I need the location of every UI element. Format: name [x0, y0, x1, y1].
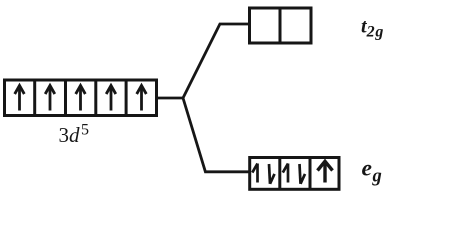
electron up-arrow 5	[137, 86, 147, 111]
wire branch up to t2g level	[183, 24, 250, 98]
eg box3 bold up arrow	[318, 161, 333, 182]
eg box1 paired electrons: half up arrow	[252, 164, 257, 183]
electron up-arrow 1	[15, 86, 25, 111]
3d orbital box row (5 boxes)	[5, 80, 157, 116]
electron up-arrow 3	[76, 86, 86, 111]
electron up-arrow 2	[45, 86, 55, 111]
eg orbital box triple	[250, 158, 339, 190]
wire branch down to eg level	[183, 98, 250, 172]
electron up-arrow 4	[106, 86, 116, 111]
eg box1 half down arrow	[269, 164, 275, 184]
wire from 3d row to junction	[157, 97, 184, 100]
eg box2 half down arrow	[300, 164, 306, 184]
eg box2 half up arrow	[283, 164, 288, 183]
t2g orbital box pair	[250, 8, 312, 43]
